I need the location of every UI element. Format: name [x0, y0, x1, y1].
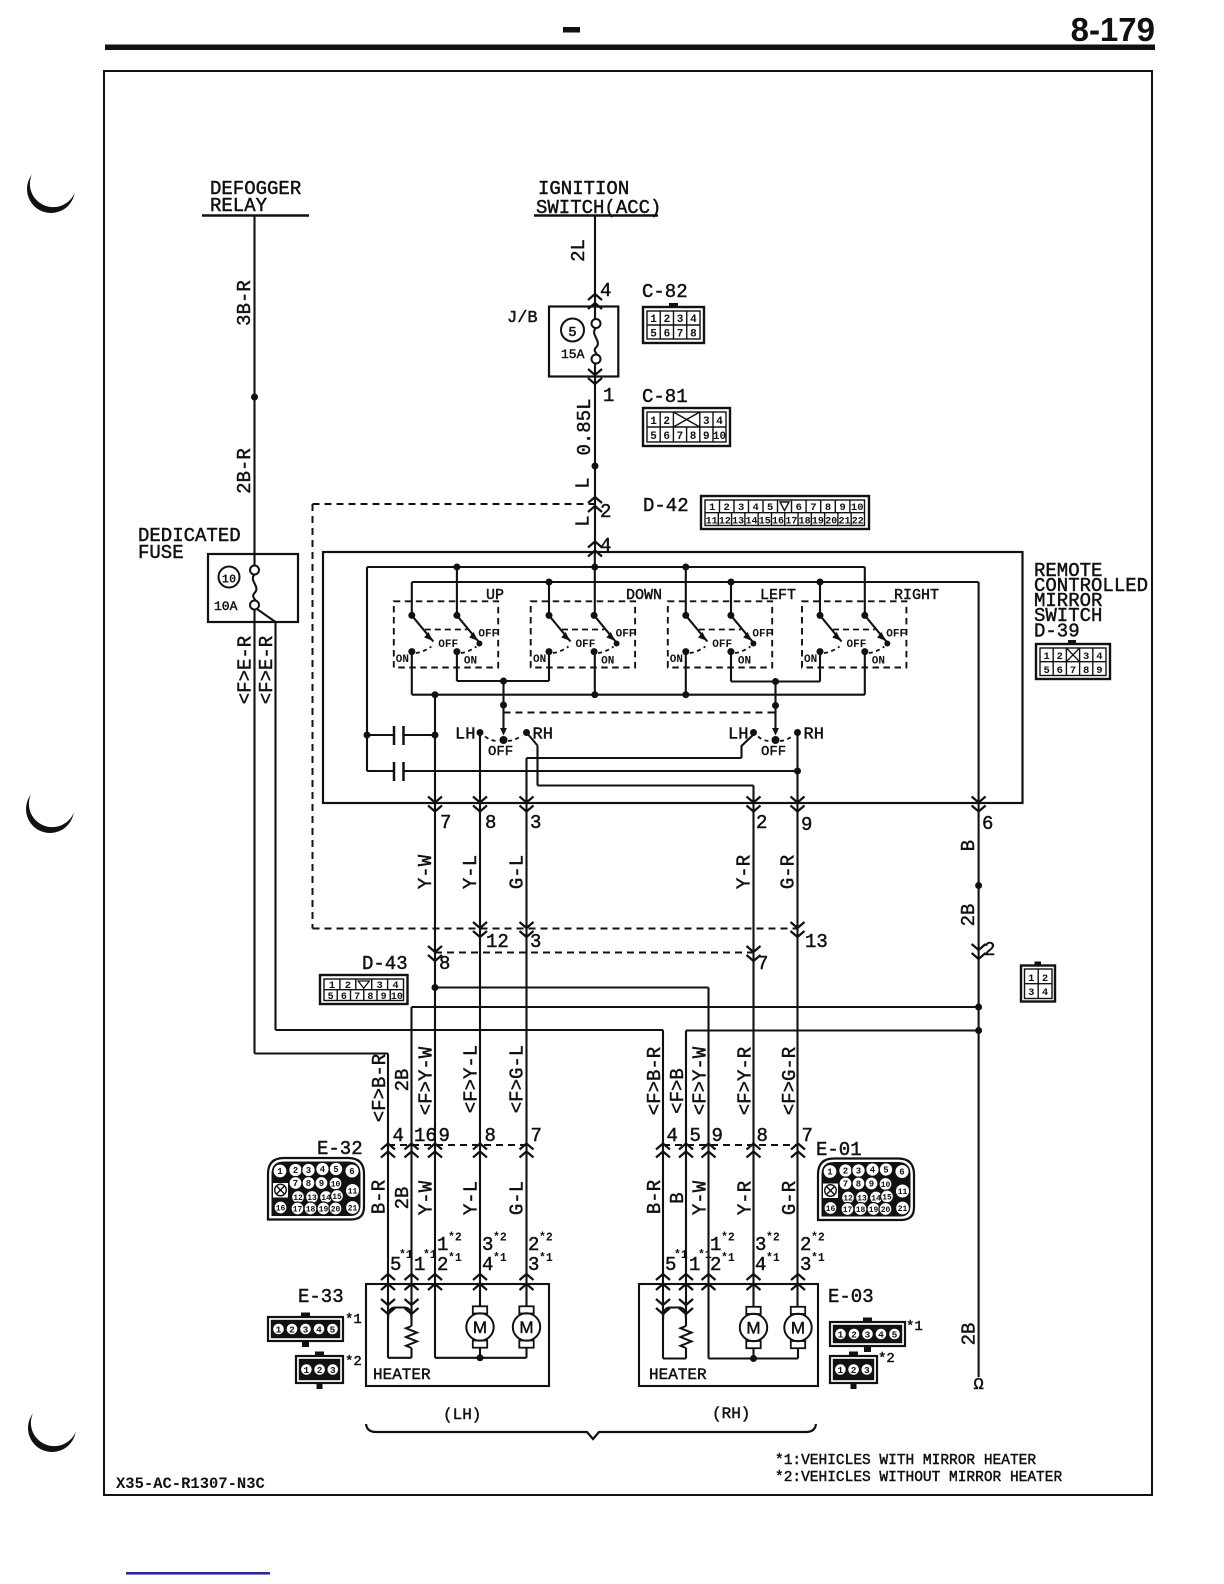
svg-text:3: 3 — [738, 502, 744, 514]
svg-text:4: 4 — [392, 980, 398, 992]
svg-text:(LH): (LH) — [443, 1406, 481, 1424]
svg-text:3: 3 — [856, 1167, 861, 1177]
svg-text:Y-W: Y-W — [416, 1180, 438, 1215]
svg-text:5: 5 — [650, 329, 657, 341]
svg-text:18: 18 — [799, 517, 811, 528]
svg-text:OFF: OFF — [488, 744, 513, 760]
svg-text:6: 6 — [341, 992, 347, 1003]
svg-text:4: 4 — [482, 1254, 493, 1276]
svg-text:9: 9 — [801, 814, 812, 836]
svg-text:0.85L: 0.85L — [574, 398, 596, 455]
svg-text:5: 5 — [690, 1125, 701, 1147]
svg-text:9: 9 — [712, 1125, 723, 1147]
svg-text:8: 8 — [757, 1125, 768, 1147]
svg-text:RIGHT: RIGHT — [894, 587, 939, 604]
svg-text:5: 5 — [330, 1325, 336, 1336]
svg-text:10: 10 — [331, 1181, 341, 1190]
svg-text:*1: *1 — [399, 1249, 413, 1262]
svg-text:*2: *2 — [721, 1232, 735, 1245]
svg-text:5: 5 — [883, 1166, 888, 1176]
svg-text:4: 4 — [600, 535, 611, 557]
svg-text:8: 8 — [690, 431, 697, 443]
svg-text:3: 3 — [330, 1365, 336, 1376]
svg-text:8: 8 — [367, 992, 373, 1003]
svg-text:7: 7 — [531, 1125, 542, 1147]
svg-text:3: 3 — [1028, 987, 1034, 999]
svg-text:3: 3 — [528, 1254, 539, 1276]
svg-text:6: 6 — [664, 329, 671, 341]
svg-text:6: 6 — [663, 431, 670, 443]
svg-text:*2: *2 — [811, 1232, 825, 1245]
svg-text:LH: LH — [455, 726, 475, 745]
svg-text:FUSE: FUSE — [138, 542, 184, 564]
svg-text:Y-W: Y-W — [415, 854, 437, 889]
svg-text:22: 22 — [852, 517, 864, 528]
svg-text:3: 3 — [800, 1254, 811, 1276]
svg-text:<F>Y-W: <F>Y-W — [690, 1046, 712, 1115]
svg-text:RELAY: RELAY — [210, 195, 268, 217]
svg-text:2: 2 — [664, 314, 671, 326]
svg-text:1: 1 — [838, 1365, 844, 1376]
svg-text:7: 7 — [440, 812, 451, 834]
svg-text:2: 2 — [756, 812, 767, 834]
svg-text:DOWN: DOWN — [626, 587, 662, 604]
svg-text:9: 9 — [381, 992, 387, 1003]
svg-text:19: 19 — [319, 1206, 329, 1215]
svg-text:5: 5 — [892, 1330, 898, 1341]
svg-text:8: 8 — [690, 329, 697, 341]
svg-text:B-R: B-R — [369, 1180, 391, 1214]
svg-text:21: 21 — [838, 517, 850, 528]
svg-text:5: 5 — [1043, 665, 1049, 677]
svg-text:ON: ON — [804, 654, 817, 666]
svg-text:5: 5 — [568, 325, 576, 341]
svg-text:<F>Y-W: <F>Y-W — [416, 1046, 438, 1115]
svg-text:1: 1 — [277, 1167, 283, 1177]
svg-text:21: 21 — [348, 1205, 358, 1214]
svg-text:9: 9 — [1096, 665, 1102, 677]
svg-text:7: 7 — [677, 329, 684, 341]
svg-text:1: 1 — [1028, 973, 1034, 985]
svg-text:12: 12 — [486, 931, 509, 953]
svg-text:1: 1 — [304, 1365, 310, 1376]
svg-text:*1:VEHICLES WITH MIRROR HEATER: *1:VEHICLES WITH MIRROR HEATER — [775, 1453, 1036, 1469]
svg-text:8: 8 — [825, 502, 831, 514]
svg-text:16: 16 — [826, 1205, 836, 1214]
svg-text:Ω: Ω — [973, 1376, 983, 1395]
svg-text:*1: *1 — [721, 1252, 735, 1265]
svg-text:G-L: G-L — [507, 855, 529, 889]
svg-text:4: 4 — [716, 416, 723, 428]
svg-text:2B-R: 2B-R — [234, 448, 256, 494]
svg-text:*1: *1 — [493, 1252, 507, 1265]
svg-text:*2: *2 — [493, 1232, 507, 1245]
svg-text:10: 10 — [391, 992, 403, 1003]
svg-text:1: 1 — [838, 1330, 844, 1341]
svg-text:2: 2 — [528, 1234, 539, 1256]
svg-text:2: 2 — [710, 1254, 721, 1276]
svg-text:OFF: OFF — [712, 639, 732, 651]
svg-text:B: B — [667, 1192, 689, 1203]
svg-text:<F>Y-L: <F>Y-L — [461, 1045, 483, 1113]
svg-text:6: 6 — [899, 1168, 904, 1178]
svg-text:3: 3 — [677, 314, 684, 326]
svg-text:2: 2 — [317, 1365, 323, 1376]
svg-text:4: 4 — [667, 1125, 678, 1147]
svg-text:Y-R: Y-R — [734, 855, 756, 889]
svg-text:1: 1 — [329, 980, 335, 992]
svg-text:<F>B-R: <F>B-R — [644, 1047, 666, 1115]
svg-text:4: 4 — [753, 502, 759, 514]
svg-text:15: 15 — [882, 1194, 892, 1203]
svg-text:UP: UP — [486, 587, 504, 604]
svg-text:OFF: OFF — [761, 744, 786, 760]
svg-text:*1: *1 — [906, 1319, 923, 1335]
svg-text:2: 2 — [843, 1167, 848, 1177]
svg-text:2B: 2B — [959, 1323, 981, 1346]
svg-text:1: 1 — [603, 385, 614, 407]
svg-text:11: 11 — [898, 1188, 908, 1197]
svg-text:2: 2 — [851, 1365, 857, 1376]
svg-text:ON: ON — [738, 656, 751, 668]
svg-text:2: 2 — [851, 1330, 857, 1341]
svg-text:21: 21 — [898, 1205, 908, 1214]
svg-text:9: 9 — [839, 502, 845, 514]
svg-text:<F>Y-R: <F>Y-R — [735, 1047, 757, 1115]
svg-text:10A: 10A — [214, 599, 238, 614]
svg-text:ON: ON — [464, 656, 477, 668]
svg-text:OFF: OFF — [576, 639, 596, 651]
svg-text:8: 8 — [1083, 665, 1089, 677]
svg-text:1: 1 — [650, 416, 657, 428]
svg-text:HEATER: HEATER — [373, 1366, 431, 1384]
svg-text:1: 1 — [437, 1234, 448, 1256]
svg-text:*1: *1 — [345, 1312, 362, 1328]
svg-text:5: 5 — [767, 502, 773, 514]
svg-text:5: 5 — [328, 992, 334, 1003]
svg-text:2: 2 — [1057, 651, 1063, 663]
svg-text:<F>E-R: <F>E-R — [235, 636, 257, 704]
svg-text:3: 3 — [703, 416, 710, 428]
svg-text:ON: ON — [396, 654, 409, 666]
svg-text:6: 6 — [796, 502, 802, 514]
svg-text:7: 7 — [354, 992, 360, 1003]
svg-text:8: 8 — [306, 1179, 311, 1189]
svg-text:18: 18 — [306, 1206, 316, 1215]
svg-text:2B: 2B — [392, 1187, 414, 1210]
svg-text:9: 9 — [439, 1125, 450, 1147]
svg-text:B: B — [958, 840, 980, 851]
svg-text:4: 4 — [316, 1325, 322, 1336]
svg-text:7: 7 — [757, 953, 768, 975]
svg-text:9: 9 — [703, 431, 710, 443]
svg-text:*2: *2 — [539, 1232, 553, 1245]
svg-text:ON: ON — [601, 656, 614, 668]
svg-text:M: M — [519, 1318, 533, 1337]
svg-text:12: 12 — [719, 517, 731, 528]
svg-text:6: 6 — [1057, 665, 1063, 677]
svg-text:4: 4 — [878, 1330, 884, 1341]
svg-text:16: 16 — [772, 517, 784, 528]
svg-text:8: 8 — [439, 953, 450, 975]
svg-text:C-82: C-82 — [642, 281, 688, 303]
svg-text:ON: ON — [670, 654, 683, 666]
svg-text:X35-AC-R1307-N3C: X35-AC-R1307-N3C — [116, 1475, 265, 1493]
svg-text:2: 2 — [724, 502, 730, 514]
svg-text:C-81: C-81 — [642, 386, 688, 408]
svg-text:B-R: B-R — [644, 1180, 666, 1214]
svg-text:2: 2 — [437, 1254, 448, 1276]
svg-text:6: 6 — [982, 813, 993, 835]
svg-text:Y-W: Y-W — [690, 1180, 712, 1215]
svg-text:1: 1 — [709, 502, 715, 514]
svg-text:*2: *2 — [878, 1351, 895, 1367]
svg-text:G-R: G-R — [778, 855, 800, 889]
svg-text:3: 3 — [1083, 651, 1089, 663]
svg-text:*2: *2 — [345, 1354, 362, 1370]
svg-text:1: 1 — [1043, 651, 1049, 663]
svg-text:OFF: OFF — [886, 629, 906, 641]
svg-text:6: 6 — [349, 1167, 354, 1177]
svg-text:<F>B-R: <F>B-R — [369, 1054, 391, 1122]
svg-text:19: 19 — [812, 517, 824, 528]
svg-text:*1: *1 — [539, 1252, 553, 1265]
svg-text:19: 19 — [869, 1206, 879, 1215]
svg-text:*1: *1 — [811, 1252, 825, 1265]
svg-text:*1: *1 — [423, 1249, 437, 1262]
svg-text:9: 9 — [869, 1180, 874, 1190]
svg-text:17: 17 — [843, 1206, 853, 1215]
svg-text:HEATER: HEATER — [649, 1366, 707, 1384]
svg-text:E-03: E-03 — [828, 1286, 874, 1308]
svg-text:11: 11 — [348, 1188, 358, 1197]
svg-text:RH: RH — [804, 726, 824, 745]
svg-text:13: 13 — [732, 517, 744, 528]
svg-text:3: 3 — [530, 931, 541, 953]
svg-text:20: 20 — [881, 1206, 891, 1215]
svg-text:2: 2 — [984, 939, 995, 961]
svg-text:D-39: D-39 — [1034, 621, 1080, 643]
svg-text:E-32: E-32 — [317, 1138, 363, 1160]
svg-text:2B: 2B — [392, 1069, 414, 1092]
svg-text:2: 2 — [800, 1234, 811, 1256]
svg-text:2: 2 — [289, 1325, 295, 1336]
svg-text:<F>G-L: <F>G-L — [507, 1045, 529, 1113]
svg-text:20: 20 — [825, 517, 837, 528]
svg-text:OFF: OFF — [616, 629, 636, 641]
svg-text:7: 7 — [843, 1180, 848, 1190]
svg-text:3: 3 — [303, 1325, 309, 1336]
svg-text:1: 1 — [276, 1325, 282, 1336]
svg-text:<F>B: <F>B — [667, 1068, 689, 1114]
svg-text:M: M — [791, 1319, 805, 1338]
svg-text:11: 11 — [706, 517, 718, 528]
svg-text:8: 8 — [485, 812, 496, 834]
svg-text:4: 4 — [1096, 651, 1102, 663]
svg-text:Y-L: Y-L — [460, 855, 482, 889]
svg-text:8-179: 8-179 — [1071, 11, 1155, 48]
svg-text:13: 13 — [805, 931, 828, 953]
svg-text:Y-L: Y-L — [461, 1181, 483, 1215]
svg-text:16: 16 — [414, 1125, 437, 1147]
svg-text:4: 4 — [690, 314, 697, 326]
svg-text:17: 17 — [785, 517, 797, 528]
svg-text:LH: LH — [728, 726, 748, 745]
svg-text:G-L: G-L — [507, 1181, 529, 1215]
svg-text:7: 7 — [293, 1179, 298, 1189]
svg-text:14: 14 — [745, 517, 757, 528]
svg-text:3: 3 — [865, 1330, 871, 1341]
svg-text:4: 4 — [870, 1166, 876, 1176]
svg-text:15: 15 — [332, 1193, 342, 1202]
svg-text:10: 10 — [851, 502, 864, 514]
svg-text:3: 3 — [530, 812, 541, 834]
svg-text:D-43: D-43 — [362, 953, 408, 975]
svg-text:1: 1 — [650, 314, 657, 326]
svg-text:3: 3 — [755, 1234, 766, 1256]
svg-text:2: 2 — [293, 1166, 298, 1176]
svg-text:3: 3 — [864, 1365, 870, 1376]
svg-text:8: 8 — [485, 1125, 496, 1147]
svg-text:15: 15 — [759, 517, 771, 528]
svg-text:4: 4 — [1042, 987, 1048, 999]
svg-text:4: 4 — [320, 1165, 326, 1175]
svg-text:L: L — [573, 515, 595, 526]
svg-text:5: 5 — [650, 431, 657, 443]
svg-text:L: L — [573, 477, 595, 488]
svg-text:*1: *1 — [448, 1252, 462, 1265]
svg-text:10: 10 — [222, 573, 236, 587]
svg-text:*1: *1 — [674, 1249, 688, 1262]
svg-text:Y-R: Y-R — [735, 1181, 757, 1215]
svg-text:7: 7 — [802, 1125, 813, 1147]
svg-text:E-33: E-33 — [298, 1286, 344, 1308]
svg-text:1: 1 — [710, 1234, 721, 1256]
svg-text:M: M — [473, 1318, 487, 1337]
svg-text:4: 4 — [755, 1254, 766, 1276]
svg-text:ON: ON — [872, 656, 885, 668]
svg-text:OFF: OFF — [438, 639, 458, 651]
svg-text:M: M — [746, 1319, 760, 1338]
svg-text:2B: 2B — [958, 904, 980, 927]
svg-text:17: 17 — [293, 1206, 303, 1215]
svg-text:2: 2 — [1042, 973, 1048, 985]
svg-text:2: 2 — [663, 416, 670, 428]
svg-text:10: 10 — [713, 431, 726, 443]
svg-text:<F>G-R: <F>G-R — [779, 1047, 801, 1115]
svg-text:LEFT: LEFT — [760, 587, 796, 604]
svg-text:7: 7 — [810, 502, 816, 514]
svg-text:15A: 15A — [561, 347, 585, 362]
svg-text:3: 3 — [306, 1166, 311, 1176]
svg-text:7: 7 — [1070, 665, 1076, 677]
svg-text:7: 7 — [677, 431, 684, 443]
svg-text:*2: *2 — [766, 1232, 780, 1245]
svg-text:(RH): (RH) — [712, 1405, 750, 1423]
svg-text:OFF: OFF — [752, 629, 772, 641]
svg-text:4: 4 — [393, 1125, 404, 1147]
svg-text:3: 3 — [482, 1234, 493, 1256]
svg-text:D-42: D-42 — [643, 495, 689, 517]
svg-text:5: 5 — [333, 1165, 338, 1175]
svg-text:G-R: G-R — [779, 1181, 801, 1215]
svg-text:*1: *1 — [766, 1252, 780, 1265]
svg-text:18: 18 — [856, 1206, 866, 1215]
svg-text:*2:VEHICLES WITHOUT MIRROR HEA: *2:VEHICLES WITHOUT MIRROR HEATER — [775, 1470, 1062, 1486]
svg-text:3B-R: 3B-R — [234, 280, 256, 326]
svg-text:2L: 2L — [568, 239, 590, 262]
svg-text:20: 20 — [331, 1206, 341, 1215]
svg-text:OFF: OFF — [847, 639, 867, 651]
svg-text:*2: *2 — [448, 1232, 462, 1245]
svg-text:J/B: J/B — [507, 309, 538, 328]
svg-text:16: 16 — [276, 1205, 286, 1214]
svg-text:ON: ON — [533, 654, 546, 666]
svg-text:1: 1 — [827, 1168, 833, 1178]
svg-text:10: 10 — [881, 1181, 891, 1190]
svg-text:2: 2 — [600, 501, 611, 523]
svg-text:9: 9 — [319, 1179, 324, 1189]
svg-text:OFF: OFF — [478, 629, 498, 641]
svg-text:8: 8 — [856, 1180, 861, 1190]
